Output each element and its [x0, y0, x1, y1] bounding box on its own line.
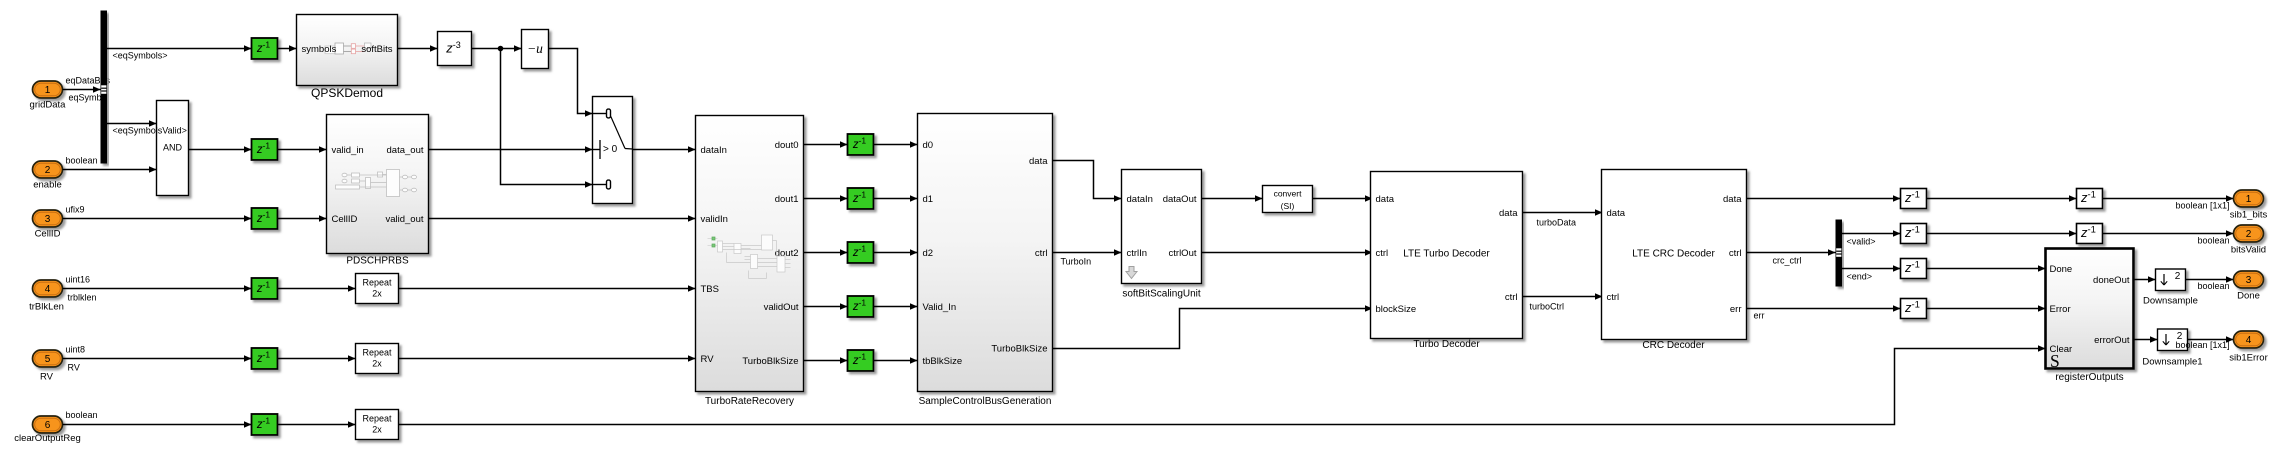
svg-text:RV: RV [701, 354, 715, 365]
delay Z-1 err r4 [1901, 299, 1927, 319]
svg-text:<end>: <end> [1847, 272, 1873, 282]
wire CRC data out [1747, 198, 1901, 200]
svg-text:symbols: symbols [302, 44, 337, 55]
wire dout2 row 3 [804, 252, 848, 254]
wire dout row 5 [804, 360, 848, 362]
svg-text:> 0: > 0 [603, 144, 618, 155]
svg-text:valid_out: valid_out [385, 214, 423, 225]
data type convert block [1263, 186, 1313, 213]
wire -u to switch input 1 [549, 49, 593, 114]
svg-text:eqSymb: eqSymb [69, 93, 102, 103]
svg-text:6: 6 [45, 420, 51, 431]
wire data_out to switch control [429, 149, 593, 151]
svg-text:validOut: validOut [764, 302, 799, 313]
svg-text:Repeat: Repeat [362, 278, 392, 288]
wire convert to Turbo data [1313, 198, 1373, 200]
wire crc_ctrl to bus creator [1747, 252, 1836, 254]
delay Z-1 mid row 5 [848, 350, 874, 371]
output port 1 sib1_bits [2234, 190, 2264, 207]
delay Z-1 mid row 2 [848, 188, 874, 209]
wire valid_out to validIn [429, 218, 696, 220]
repeat block clear [356, 410, 399, 440]
svg-text:boolean [1x1]: boolean [1x1] [2175, 340, 2229, 350]
wire doneOut to Downsample [2134, 279, 2156, 281]
input port 5 RV [33, 350, 63, 367]
svg-text:Downsample1: Downsample1 [2142, 357, 2202, 368]
svg-text:2x: 2x [372, 359, 382, 369]
wire softBits to Z-3 [398, 48, 438, 50]
svg-text:(SI): (SI) [1281, 201, 1295, 211]
svg-text:TBS: TBS [701, 284, 719, 295]
delay Z-1 mid row 3 [848, 242, 874, 263]
svg-text:tbBlkSize: tbBlkSize [923, 356, 963, 367]
delay Z-1 RV [252, 348, 278, 369]
wire dout0 row 1 [804, 144, 848, 146]
subsystem PDSCHPRBS [327, 115, 429, 254]
wire turboData [1523, 212, 1603, 214]
svg-text:TurboBlkSize: TurboBlkSize [742, 356, 798, 367]
unary minus -u [522, 30, 549, 69]
svg-text:LTE CRC Decoder: LTE CRC Decoder [1632, 249, 1715, 260]
wire switch out to TurboRateRecovery dataIn [633, 149, 696, 151]
svg-text:turboData: turboData [1537, 218, 1577, 228]
junction dot [498, 46, 504, 52]
wire Repeat RV out [399, 358, 696, 360]
svg-text:doneOut: doneOut [2093, 275, 2130, 286]
svg-text:3: 3 [2246, 275, 2252, 286]
svg-text:errorOut: errorOut [2094, 335, 2130, 346]
svg-text:<eqSymbols>: <eqSymbols> [113, 51, 168, 61]
delay Z-1 end r3 [1901, 259, 1927, 279]
svg-text:sib1Error: sib1Error [2229, 353, 2268, 364]
svg-text:Done: Done [2050, 264, 2073, 275]
delay Z-1 valid r2c2 [2077, 224, 2103, 244]
svg-text:<eqSymbolsValid>: <eqSymbolsValid> [113, 126, 187, 136]
delay Z-1 mid row 4 [848, 296, 874, 317]
svg-text:data: data [1029, 156, 1048, 167]
svg-text:turboCtrl: turboCtrl [1530, 302, 1565, 312]
svg-text:blockSize: blockSize [1376, 304, 1417, 315]
bus selector bar [101, 11, 108, 164]
svg-text:uint8: uint8 [66, 345, 86, 355]
svg-text:CellID: CellID [332, 214, 358, 225]
svg-text:Valid_In: Valid_In [923, 302, 957, 313]
wire to PDSCHPRBS valid_in [278, 149, 327, 151]
svg-text:1: 1 [45, 85, 51, 96]
downsample1 block [2158, 329, 2188, 351]
wire to Repeat clear [278, 424, 356, 426]
svg-text:CRC Decoder: CRC Decoder [1642, 340, 1705, 351]
wire r2 c1-c2 [1927, 233, 2077, 235]
svg-text:err: err [1754, 311, 1765, 321]
delay Z-1 mid row 1 [848, 134, 874, 155]
wire ctrlOut to Turbo ctrl [1202, 252, 1373, 254]
svg-text:boolean: boolean [2197, 236, 2229, 246]
svg-text:boolean: boolean [66, 410, 98, 420]
svg-text:ctrl: ctrl [1505, 292, 1518, 303]
svg-text:dout1: dout1 [775, 194, 799, 205]
wire r1 c1-c2 [1927, 198, 2077, 200]
wire valid out of bus [1842, 233, 1901, 235]
wire to Repeat RV [278, 358, 356, 360]
wire mid row 1 to SampleControlBusGeneration [874, 144, 918, 146]
svg-text:dataOut: dataOut [1163, 194, 1197, 205]
svg-text:trBlkLen: trBlkLen [29, 302, 64, 313]
svg-text:err: err [1730, 304, 1742, 315]
svg-text:TurboBlkSize: TurboBlkSize [991, 344, 1047, 355]
wire enable to AND [63, 169, 157, 171]
svg-text:ctrl: ctrl [1607, 292, 1620, 303]
svg-text:dout0: dout0 [775, 140, 799, 151]
svg-text:Error: Error [2050, 304, 2071, 315]
wire eqSymbols [107, 48, 252, 50]
svg-text:SampleControlBusGeneration: SampleControlBusGeneration [919, 396, 1052, 407]
block LTE Turbo Decoder [1371, 172, 1523, 339]
svg-text:4: 4 [2246, 335, 2252, 346]
output port 4 sib1Error [2234, 331, 2264, 348]
subsystem SampleControlBusGeneration [918, 114, 1053, 392]
delay Z-3 [438, 32, 472, 66]
svg-text:5: 5 [45, 354, 51, 365]
svg-text:trblklen: trblklen [68, 293, 97, 303]
wire RV to delay [63, 358, 252, 360]
PDSCHPRBS icon [336, 170, 417, 197]
svg-text:dataIn: dataIn [1127, 194, 1153, 205]
wire errorOut to Downsample1 [2134, 339, 2158, 341]
output port 3 Done [2234, 271, 2264, 288]
wire Repeat TBS out [399, 288, 696, 290]
svg-text:2: 2 [2175, 271, 2181, 282]
delay Z-1 CellID [252, 208, 278, 229]
svg-text:AND: AND [163, 143, 183, 153]
svg-text:data: data [1607, 208, 1626, 219]
wire gridData to bus selector [63, 89, 101, 91]
wire to Repeat TBS [278, 288, 356, 290]
delay Z-1 valid r2c1 [1901, 224, 1927, 244]
svg-text:d2: d2 [923, 248, 934, 259]
delay Z-1 trBlkLen [252, 278, 278, 299]
svg-text:−u: −u [527, 41, 543, 56]
subsystem softBitScalingUnit [1122, 170, 1202, 284]
svg-text:boolean: boolean [2197, 281, 2229, 291]
svg-text:bitsValid: bitsValid [2231, 245, 2266, 256]
svg-text:clearOutputReg: clearOutputReg [14, 433, 81, 444]
svg-text:gridData: gridData [30, 100, 67, 111]
wire AND out [189, 149, 252, 151]
svg-text:dataIn: dataIn [701, 145, 727, 156]
wire dout row 4 [804, 306, 848, 308]
wire to PDSCHPRBS CellID [278, 218, 327, 220]
svg-text:d1: d1 [923, 194, 934, 205]
input port 6 clearOutputReg [33, 416, 63, 433]
wire r4 to Error in [1927, 308, 2046, 310]
downsample block [2156, 269, 2186, 291]
bus selector bar right [1836, 220, 1843, 287]
svg-text:d0: d0 [923, 140, 934, 151]
svg-text:4: 4 [45, 284, 51, 295]
subsystem registerOutputs [2046, 249, 2134, 369]
svg-text:LTE Turbo Decoder: LTE Turbo Decoder [1403, 249, 1490, 260]
svg-text:S: S [2050, 351, 2060, 371]
input port 3 CellID [33, 210, 63, 227]
svg-text:2x: 2x [372, 289, 382, 299]
svg-text:3: 3 [45, 214, 51, 225]
svg-text:ctrlOut: ctrlOut [1169, 248, 1197, 259]
svg-text:2: 2 [45, 165, 51, 176]
svg-text:Done: Done [2237, 291, 2260, 302]
wire junction to switch input 3 [501, 49, 593, 185]
wire mid row 2 to SampleControlBusGeneration [874, 198, 918, 200]
svg-text:validIn: validIn [701, 214, 728, 225]
wire mid row 3 to SampleControlBusGeneration [874, 252, 918, 254]
svg-text:ctrl: ctrl [1376, 248, 1389, 259]
svg-text:TurboIn: TurboIn [1061, 257, 1092, 267]
wire dataOut to convert [1202, 198, 1263, 200]
svg-text:uint16: uint16 [66, 275, 91, 285]
wire err out [1747, 308, 1901, 310]
logical operator AND [157, 101, 189, 196]
svg-text:data_out: data_out [387, 145, 424, 156]
svg-text:CellID: CellID [35, 229, 61, 240]
svg-text:Repeat: Repeat [362, 414, 392, 424]
svg-text:Downsample: Downsample [2143, 296, 2198, 307]
wire r3 to Done in [1927, 268, 2046, 270]
wire trBlkLen to delay [63, 288, 252, 290]
svg-text:QPSKDemod: QPSKDemod [311, 86, 383, 100]
svg-text:sib1_bits: sib1_bits [2230, 210, 2268, 221]
delay Z-1 valid [252, 139, 278, 160]
wire eqSymbolsValid [107, 123, 157, 125]
svg-text:Repeat: Repeat [362, 348, 392, 358]
input port 4 trBlkLen [33, 280, 63, 297]
svg-text:boolean [1x1]: boolean [1x1] [2175, 201, 2229, 211]
wire dout1 row 2 [804, 198, 848, 200]
wire r2 to bitsValid [2103, 233, 2234, 235]
wire CellID to delay [63, 218, 252, 220]
svg-text:registerOutputs: registerOutputs [2055, 372, 2123, 383]
QPSKDemod icon [325, 43, 371, 54]
svg-text:data: data [1499, 208, 1518, 219]
wire Downsample1 to sib1Error port [2188, 339, 2234, 341]
svg-text:ctrl: ctrl [1729, 248, 1742, 259]
svg-text:convert: convert [1274, 189, 1303, 199]
input port 1 gridData [33, 81, 63, 98]
svg-text:RV: RV [40, 372, 54, 383]
svg-text:softBits: softBits [361, 44, 392, 55]
wire to QPSKDemod [278, 48, 297, 50]
wire Z-3 out with junction [472, 48, 522, 50]
bus selector input icon [101, 85, 106, 94]
svg-text:data: data [1723, 194, 1742, 205]
svg-text:1: 1 [2246, 194, 2252, 205]
svg-text:ctrl: ctrl [1035, 248, 1048, 259]
delay Z-1 clear [252, 414, 278, 435]
svg-text:2x: 2x [372, 425, 382, 435]
switch internals [593, 109, 633, 189]
svg-text:TurboRateRecovery: TurboRateRecovery [705, 396, 794, 407]
wire turboCtrl [1523, 296, 1603, 298]
wire mid row 5 to SampleControlBusGeneration [874, 360, 918, 362]
svg-text:Turbo Decoder: Turbo Decoder [1413, 339, 1480, 350]
wire TurboBlkSize to LTE Turbo Decoder blockSize [1053, 309, 1373, 349]
wire Repeat clear out to registerOutputs Clear [399, 349, 2046, 425]
svg-text:crc_ctrl: crc_ctrl [1773, 256, 1802, 266]
svg-text:RV: RV [68, 363, 80, 373]
svg-text:ufix9: ufix9 [66, 205, 85, 215]
svg-text:PDSCHPRBS: PDSCHPRBS [346, 256, 409, 267]
wire Downsample to Done port [2186, 279, 2234, 281]
svg-text:<valid>: <valid> [1847, 237, 1876, 247]
switch block [593, 97, 633, 204]
svg-text:ctrlIn: ctrlIn [1127, 248, 1148, 259]
svg-text:2: 2 [2246, 229, 2252, 240]
wire data to softBitScalingUnit dataIn [1053, 161, 1122, 199]
svg-text:enable: enable [33, 180, 62, 191]
TurboRateRecovery icon [708, 235, 791, 279]
delay Z-1 data r1c2 [2077, 189, 2103, 209]
output port 2 bitsValid [2234, 225, 2264, 242]
wire r1 to sib1_bits [2103, 198, 2234, 200]
wire clearOutputReg to delay [63, 424, 252, 426]
input port 2 enable [33, 161, 63, 178]
wire ctrl to softBitScalingUnit ctrlIn [1053, 252, 1122, 254]
subsystem QPSKDemod [297, 15, 398, 86]
block LTE CRC Decoder [1602, 170, 1747, 340]
svg-text:data: data [1376, 194, 1395, 205]
delay Z-1 data r1c1 [1901, 189, 1927, 209]
wire mid row 4 to SampleControlBusGeneration [874, 306, 918, 308]
repeat block RV [356, 344, 399, 374]
repeat block TBS [356, 274, 399, 304]
svg-text:valid_in: valid_in [332, 145, 364, 156]
bus selector input icon right [1836, 248, 1841, 256]
softBitScalingUnit arrow icon [1126, 267, 1137, 279]
subsystem TurboRateRecovery [696, 116, 804, 392]
svg-text:boolean: boolean [66, 156, 98, 166]
wire end out of bus [1842, 268, 1901, 270]
svg-text:softBitScalingUnit: softBitScalingUnit [1122, 289, 1201, 300]
delay Z-1 eqSymbols [252, 38, 278, 59]
